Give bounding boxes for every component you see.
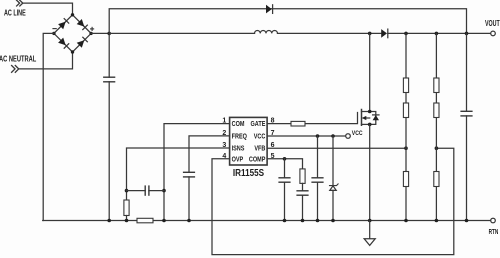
ISNS series resistor (124, 200, 129, 216)
svg-text:VOUT: VOUT (485, 19, 500, 29)
wire: pin 6 VFB to divider 1 (267, 147, 406, 149)
node: input cap to rail (107, 219, 111, 223)
node: VCC cap to rail (316, 219, 320, 223)
divider 1 resistor middle (403, 103, 408, 118)
label: bridge positive terminal (91, 27, 94, 30)
label: bridge negative terminal (53, 28, 56, 30)
wire: pin 7 VCC line (267, 135, 346, 137)
wire: pin 8 GATE to MOSFET gate (267, 113, 357, 124)
pin number labels left (1-4) (222, 118, 226, 160)
svg-text:VFB: VFB (254, 145, 265, 153)
bridge node dots (52, 13, 93, 54)
divider 1 resistor upper (403, 78, 408, 93)
ISNS filter capacitor (series, horizontal) (127, 186, 165, 195)
ground rail (43, 220, 491, 222)
svg-text:GATE: GATE (251, 121, 266, 129)
node: ISNS filter junction (125, 189, 129, 193)
divider 2 resistor middle (434, 103, 439, 118)
bridge diode (top-left, pointing to top node) (58, 19, 69, 30)
output capacitor (461, 33, 472, 220)
svg-text:COM: COM (232, 121, 245, 129)
input filter capacitor (104, 33, 115, 220)
MOSFET channel bar (361, 110, 363, 126)
node: divider 2 to rail (435, 219, 439, 223)
wire: AC line input to bridge top node (23, 3, 73, 15)
svg-text:VCC: VCC (254, 133, 266, 141)
divider 1 wire (405, 33, 407, 220)
bridge diode (bottom-right, pointing to + node) (77, 37, 88, 48)
node: rectified positive junction (107, 32, 111, 36)
node: COM filter junction (162, 189, 166, 193)
wire: pin 1 COM to ground rail (164, 124, 230, 221)
VOUT terminal (491, 31, 496, 36)
node: divider 1 top (404, 32, 408, 36)
VCC decoupling capacitor (312, 136, 323, 221)
svg-text:IR1155S: IR1155S (233, 167, 264, 178)
node: zener tap (331, 134, 335, 138)
node: zener to rail (331, 219, 335, 223)
svg-text:RTN: RTN (489, 228, 499, 236)
wire: ISNS resistor to rail (126, 216, 128, 221)
wire: top bypass branch (109, 9, 466, 34)
svg-text:ISNS: ISNS (232, 145, 245, 153)
wire: output bus (388, 32, 491, 34)
COMP series resistor (300, 169, 305, 184)
bridge rectifier: diamond outline (54, 15, 91, 52)
boost diode (381, 29, 388, 38)
FREQ capacitor plates (184, 172, 195, 177)
MOSFET source stub (362, 123, 370, 125)
MOSFET body arrow stub (362, 116, 370, 120)
wire: bridge negative terminal down to ground rail (43, 33, 108, 220)
MOSFET body diode symbol (373, 115, 379, 120)
COMP series capacitor (297, 183, 308, 220)
divider 1 resistor lower (403, 172, 408, 187)
node: output capacitor top (465, 32, 469, 36)
node: COMP RC to rail (301, 219, 305, 223)
svg-text:AC LINE: AC LINE (4, 10, 26, 18)
node: OVP tap on divider 2 (435, 146, 439, 150)
VCC terminal (346, 134, 351, 139)
IC pin name labels (232, 121, 266, 164)
svg-text:VCC: VCC (352, 130, 363, 137)
node: COMP cap tap (283, 157, 287, 161)
MOSFET body diode loop (370, 112, 376, 125)
pin number labels right (8-5) (271, 118, 275, 160)
AC LINE input connector (17, 0, 23, 6)
COMP capacitor 1 (279, 159, 290, 221)
wire: inductor to MOSFET drain node (278, 32, 382, 34)
boost inductor (255, 30, 278, 33)
RTN terminal (491, 218, 496, 223)
shunt resistor (in rail) (137, 218, 153, 223)
divider 2 resistor upper (434, 78, 439, 93)
node: MOSFET drain junction (368, 32, 372, 36)
wire: AC neutral input to bridge bottom node (19, 52, 73, 69)
ground symbol (364, 221, 375, 246)
wire: main line from + node to inductor (109, 32, 254, 34)
svg-text:FREQ: FREQ (232, 133, 247, 141)
node: MOSFET drain (368, 110, 372, 114)
svg-text:COMP: COMP (249, 156, 266, 164)
bridge diode (top-right, pointing to + node) (77, 19, 88, 30)
node: output cap to rail (465, 219, 469, 223)
node: COMP cap1 to rail (283, 219, 287, 223)
zener diode (VCC clamp) (330, 136, 339, 221)
node: FREQ cap to rail (187, 219, 191, 223)
wire: pin 4 OVP down and around (212, 148, 454, 254)
node: ISNS resistor to rail (125, 219, 129, 223)
node: COM line to rail (162, 219, 166, 223)
gate resistor (291, 121, 305, 126)
node: source line to rail (368, 219, 372, 223)
bridge diode (bottom-left, pointing to bottom node) (58, 38, 69, 49)
wire: MOSFET source to ground rail (369, 124, 371, 220)
node: divider 2 top (435, 32, 439, 36)
AC NEUTRAL input connector (12, 66, 19, 73)
wire: pin 2 FREQ branch (189, 136, 230, 221)
node: MOSFET source (368, 123, 372, 127)
svg-text:OVP: OVP (232, 156, 244, 164)
divider 2 resistor lower (434, 172, 439, 187)
MOSFET drain stub (362, 33, 370, 111)
divider 2 wire (435, 33, 437, 220)
wire: pin 5 COMP line (267, 159, 302, 169)
node: divider 1 to rail (404, 219, 408, 223)
bypass diode (top line) (266, 5, 273, 14)
svg-text:AC NEUTRAL: AC NEUTRAL (0, 56, 37, 64)
node: VFB tap on divider 1 (404, 146, 408, 150)
wire: pin 3 ISNS branch (127, 148, 230, 200)
node: VCC cap tap (316, 134, 320, 138)
IC IR1155S body (230, 117, 268, 165)
